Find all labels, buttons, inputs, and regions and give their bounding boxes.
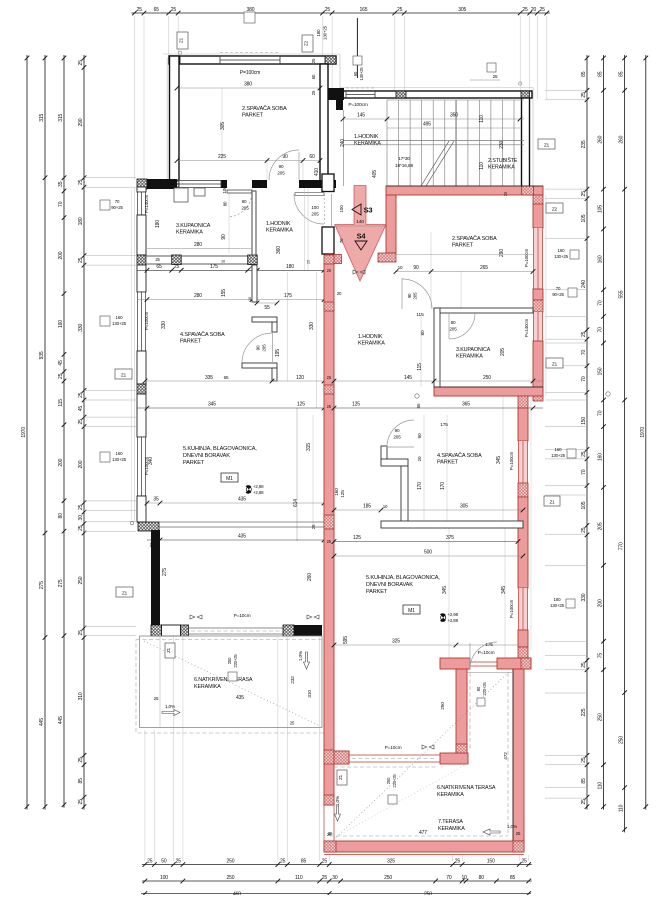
right dim col fine [581, 55, 589, 810]
svg-text:1.HODNIK: 1.HODNIK [354, 134, 379, 140]
right dim col coarse [619, 55, 627, 832]
svg-text:PARKET: PARKET [183, 460, 205, 466]
svg-text:Z1: Z1 [179, 37, 184, 43]
svg-text:220+25: 220+25 [482, 682, 487, 696]
svg-text:25: 25 [581, 331, 587, 337]
right apt kupaonica walls [434, 308, 543, 396]
left terrace outline [136, 636, 326, 733]
svg-text:70: 70 [581, 350, 587, 356]
svg-text:90+25: 90+25 [552, 292, 564, 297]
tag Z1 right of stair [538, 139, 555, 149]
svg-text:25: 25 [78, 504, 84, 510]
svg-text:70: 70 [598, 300, 604, 306]
svg-text:KERAMIKA: KERAMIKA [438, 826, 465, 832]
svg-text:290: 290 [78, 118, 84, 126]
svg-text:5.KUHINJA, BLAGOVAONICA,: 5.KUHINJA, BLAGOVAONICA, [366, 575, 440, 581]
svg-text:P=100cm: P=100cm [509, 599, 514, 618]
stair break diagonal [421, 141, 454, 186]
svg-text:80: 80 [58, 513, 64, 519]
bottom extension lines [145, 637, 529, 861]
svg-text:555: 555 [619, 290, 625, 298]
right terrace Z1 tag [337, 770, 347, 785]
svg-text:25: 25 [581, 662, 587, 668]
svg-text:160: 160 [116, 315, 124, 320]
svg-text:25: 25 [311, 90, 316, 95]
svg-text:65: 65 [156, 264, 162, 270]
room 5.KUHINJA label left apt [183, 446, 257, 466]
svg-text:25: 25 [280, 859, 286, 865]
svg-text:25: 25 [78, 419, 84, 425]
svg-text:85: 85 [78, 778, 84, 784]
svg-text:115: 115 [417, 363, 423, 371]
svg-text:275: 275 [58, 579, 64, 587]
svg-text:70: 70 [339, 238, 344, 243]
svg-text:310: 310 [307, 690, 313, 698]
right apt top wall red [386, 186, 543, 196]
svg-text:P=100cm: P=100cm [509, 451, 514, 470]
4.SPAVACA dims left apt [137, 321, 334, 411]
svg-text:25: 25 [311, 58, 316, 63]
svg-text:65: 65 [416, 403, 421, 408]
svg-text:1970: 1970 [640, 427, 646, 438]
svg-text:25: 25 [522, 7, 528, 13]
svg-text:235: 235 [581, 140, 587, 148]
svg-text:330: 330 [581, 593, 587, 601]
svg-text:250: 250 [424, 892, 432, 896]
svg-text:205: 205 [311, 212, 319, 217]
svg-text:205: 205 [277, 171, 285, 176]
svg-text:5.KUHINJA, BLAGOVAONICA,: 5.KUHINJA, BLAGOVAONICA, [183, 446, 257, 452]
svg-text:100: 100 [160, 875, 168, 881]
svg-text:472: 472 [503, 752, 509, 760]
svg-text:345: 345 [501, 586, 507, 594]
stair block top wall [336, 88, 532, 99]
fixtures kupaonica left apt [174, 188, 205, 202]
svg-text:25: 25 [137, 7, 143, 13]
svg-text:110: 110 [479, 162, 485, 170]
svg-text:405: 405 [372, 170, 378, 178]
tag 90/130+25 above stair [353, 56, 364, 81]
svg-text:195: 195 [275, 349, 281, 357]
bottom dim row1 [142, 859, 532, 867]
svg-text:150: 150 [581, 417, 587, 425]
svg-text:2.SPAVAČA SOBA: 2.SPAVAČA SOBA [242, 105, 287, 112]
svg-text:20: 20 [417, 456, 422, 461]
svg-text:DNEVNI BORAVAK: DNEVNI BORAVAK [183, 453, 230, 459]
svg-text:110: 110 [619, 804, 625, 812]
room 1.HODNIK (stair hall) label [354, 134, 381, 147]
svg-text:Z1: Z1 [549, 500, 555, 505]
svg-text:3.KUPAONICA: 3.KUPAONICA [176, 223, 211, 229]
svg-text:335: 335 [205, 375, 213, 381]
left apartment step-out wall [137, 179, 177, 189]
svg-text:25: 25 [78, 525, 84, 531]
right apt kitchen dims [332, 586, 518, 656]
tag 25 square above stair right [470, 63, 500, 80]
svg-text:KERAMIKA: KERAMIKA [456, 354, 483, 360]
tag 70/90+25 left margin [100, 199, 123, 210]
svg-text:10: 10 [461, 875, 467, 881]
tag 160/130+25 right margin 2 [551, 447, 576, 458]
kitchen parapet double line [159, 522, 324, 527]
svg-text:250: 250 [227, 657, 232, 664]
svg-text:25: 25 [325, 7, 331, 13]
svg-text:10: 10 [383, 504, 388, 509]
svg-text:435: 435 [238, 534, 246, 540]
svg-text:65: 65 [224, 375, 229, 380]
svg-text:55: 55 [264, 305, 270, 311]
svg-text:150: 150 [487, 859, 495, 865]
svg-text:614: 614 [293, 499, 299, 507]
svg-text:P=140cm: P=140cm [144, 194, 149, 213]
svg-text:1,0%: 1,0% [165, 704, 176, 710]
svg-text:90: 90 [407, 293, 412, 298]
svg-text:90: 90 [221, 234, 227, 240]
svg-text:M1: M1 [408, 608, 415, 614]
svg-text:1,0%: 1,0% [507, 824, 518, 830]
spine bottom gap and lines [324, 805, 334, 841]
right terrace 250/220+25 tag [386, 774, 397, 804]
corridor dims near arrow [334, 205, 391, 244]
svg-text:25: 25 [176, 859, 182, 865]
svg-text:140: 140 [356, 219, 364, 225]
S4 label and triangle [355, 232, 367, 251]
right apt terrace step wall vertical [334, 669, 468, 764]
svg-text:45: 45 [78, 406, 84, 412]
svg-text:35: 35 [153, 497, 159, 503]
svg-text:375: 375 [446, 535, 454, 541]
svg-text:160: 160 [558, 248, 566, 253]
svg-text:Z1: Z1 [121, 373, 127, 378]
svg-text:160: 160 [555, 447, 563, 452]
svg-text:2.STUBIŠTE: 2.STUBIŠTE [488, 157, 518, 164]
svg-text:25: 25 [493, 74, 498, 79]
svg-text:45: 45 [58, 360, 64, 366]
svg-text:125: 125 [353, 535, 361, 541]
door symbols hodnik right apt [353, 270, 365, 274]
svg-text:260: 260 [598, 135, 604, 143]
svg-text:25: 25 [581, 451, 587, 457]
svg-text:P=100cm: P=100cm [144, 311, 149, 330]
svg-text:Z2: Z2 [552, 207, 558, 212]
svg-text:80: 80 [223, 201, 228, 206]
svg-text:315: 315 [39, 113, 45, 121]
svg-text:P=10cm: P=10cm [234, 613, 251, 619]
svg-text:90: 90 [279, 164, 284, 169]
svg-text:250: 250 [384, 875, 392, 881]
svg-text:305: 305 [220, 122, 226, 130]
room 2.SPAVACA SOBA: bottom wall with door opening [169, 180, 336, 188]
svg-text:232: 232 [290, 676, 296, 684]
svg-text:S3: S3 [364, 206, 373, 215]
svg-text:1970: 1970 [21, 427, 27, 438]
svg-text:435: 435 [236, 695, 244, 701]
svg-text:90: 90 [417, 433, 423, 439]
right apt bedroom4 dims [332, 422, 526, 558]
svg-text:130+25: 130+25 [112, 457, 127, 462]
tag 180/130+25 top [244, 12, 328, 40]
red arrow S3 S4 [335, 186, 386, 282]
kitchen step block left [138, 522, 159, 531]
svg-text:KERAMIKA: KERAMIKA [488, 165, 515, 171]
svg-text:70: 70 [598, 410, 604, 416]
svg-text:110: 110 [598, 782, 604, 790]
partition 4.SPAVACA left apt L-shape [242, 265, 279, 381]
svg-text:70: 70 [58, 201, 64, 207]
svg-text:25: 25 [397, 7, 403, 13]
svg-text:155: 155 [221, 289, 227, 297]
right apt terrace door P=10cm [349, 745, 440, 762]
tag Z1 above top-left room [177, 32, 188, 49]
left dim col coarse [39, 55, 47, 810]
svg-text:595: 595 [343, 636, 349, 644]
svg-text:130+25: 130+25 [554, 254, 569, 259]
right apt hodnik label [358, 334, 385, 347]
svg-text:6.NATKRIVENA TERASA: 6.NATKRIVENA TERASA [437, 785, 496, 791]
svg-text:25: 25 [581, 757, 587, 763]
svg-text:25: 25 [78, 799, 84, 805]
right terrace slope arrow horizontal [483, 824, 518, 835]
svg-text:25: 25 [322, 859, 328, 865]
svg-text:205: 205 [449, 327, 457, 332]
right dim col mid [598, 55, 606, 810]
svg-text:250: 250 [598, 713, 604, 721]
svg-text:85: 85 [619, 71, 625, 77]
svg-text:85: 85 [581, 778, 587, 784]
right terrace slope arrow vertical [335, 795, 342, 821]
svg-text:105: 105 [598, 205, 604, 213]
svg-text:410: 410 [314, 168, 320, 176]
svg-text:250: 250 [226, 875, 234, 881]
svg-text:170: 170 [417, 482, 423, 490]
right apt bedroom4 label [437, 452, 482, 466]
svg-text:90: 90 [256, 345, 261, 350]
svg-text:20: 20 [337, 291, 342, 296]
svg-text:1.HODNIK: 1.HODNIK [266, 221, 291, 227]
room 2.SPAVACA SOBA label [242, 105, 287, 119]
svg-text:290: 290 [499, 249, 505, 257]
svg-text:KERAMIKA: KERAMIKA [358, 341, 385, 347]
svg-text:260: 260 [619, 135, 625, 143]
svg-text:180: 180 [78, 217, 84, 225]
kitchen left wall lower [151, 530, 160, 626]
svg-text:130+25: 130+25 [323, 25, 328, 40]
svg-text:200: 200 [58, 251, 64, 259]
spine wall black top [322, 174, 342, 264]
svg-text:345: 345 [496, 456, 502, 464]
svg-text:+2,88: +2,88 [448, 618, 459, 623]
svg-text:KERAMIKA: KERAMIKA [266, 228, 293, 234]
left dim col fine [78, 55, 86, 810]
svg-text:477: 477 [419, 830, 427, 836]
svg-text:160: 160 [334, 488, 340, 496]
svg-text:90: 90 [413, 265, 419, 271]
svg-text:30: 30 [332, 875, 338, 881]
left apartment left wall [137, 187, 149, 522]
svg-text:310: 310 [78, 692, 84, 700]
svg-text:70: 70 [446, 875, 452, 881]
room 1.HODNIK label left apt [266, 221, 293, 234]
svg-text:Z2: Z2 [304, 40, 309, 46]
stair block right wall [522, 98, 530, 187]
left terrace 250/220+25 tag [227, 654, 238, 681]
svg-text:125: 125 [352, 402, 360, 408]
svg-text:+2,98: +2,98 [448, 612, 459, 617]
stair treads [343, 100, 524, 186]
svg-text:25: 25 [581, 191, 587, 197]
svg-text:25: 25 [78, 630, 84, 636]
svg-text:6.NATKRIVENA TERASA: 6.NATKRIVENA TERASA [194, 677, 253, 683]
svg-text:50: 50 [161, 859, 167, 865]
tag Z1 left margin kitchen [116, 587, 133, 597]
left terrace Z1 tag [165, 643, 175, 658]
kitchen dims left apt [145, 322, 334, 581]
svg-text:345: 345 [208, 402, 216, 408]
svg-text:330: 330 [161, 321, 167, 329]
right terrace labels [419, 682, 509, 836]
svg-text:205: 205 [500, 348, 506, 356]
svg-text:185: 185 [363, 504, 371, 510]
right terrace inner outline [330, 672, 513, 841]
svg-text:P=100cm: P=100cm [240, 70, 260, 76]
svg-text:25: 25 [322, 875, 328, 881]
svg-text:110: 110 [295, 875, 303, 881]
svg-text:P=10cm: P=10cm [385, 745, 402, 751]
stair dims and labels [340, 102, 524, 178]
svg-text:205: 205 [598, 522, 604, 530]
svg-text:160: 160 [58, 320, 64, 328]
svg-text:PARKET: PARKET [437, 460, 459, 466]
svg-text:250: 250 [619, 736, 625, 744]
svg-text:70: 70 [598, 327, 604, 333]
svg-text:+2,88: +2,88 [253, 490, 264, 495]
svg-text:25: 25 [78, 60, 84, 66]
stair block left wall stub [328, 88, 344, 186]
right apt kitchen terrace door arc [470, 642, 497, 669]
bottom dim row2 [142, 875, 532, 883]
svg-text:315: 315 [58, 113, 64, 121]
svg-text:100: 100 [311, 205, 319, 210]
svg-text:3.KUPAONICA: 3.KUPAONICA [456, 347, 491, 353]
svg-text:220+25: 220+25 [392, 774, 397, 788]
svg-text:90+25: 90+25 [111, 205, 123, 210]
svg-text:25: 25 [78, 257, 84, 263]
svg-text:305: 305 [460, 504, 468, 510]
svg-text:150: 150 [598, 367, 604, 375]
svg-text:330: 330 [309, 322, 315, 330]
svg-text:495: 495 [423, 122, 431, 128]
svg-text:170: 170 [440, 482, 446, 490]
right apt kitchen south wall with door [440, 658, 531, 669]
svg-text:KERAMIKA: KERAMIKA [437, 792, 464, 798]
dim row left apt y299 [137, 289, 330, 302]
svg-text:20: 20 [531, 7, 537, 13]
svg-text:25: 25 [154, 696, 159, 701]
svg-text:25: 25 [581, 527, 587, 533]
tag Z1 right margin mid [546, 358, 563, 368]
svg-text:85: 85 [598, 71, 604, 77]
svg-text:175: 175 [284, 293, 292, 299]
svg-text:280: 280 [194, 293, 202, 299]
svg-text:305: 305 [458, 7, 466, 13]
svg-text:100: 100 [339, 205, 344, 213]
svg-text:325: 325 [392, 639, 400, 645]
svg-text:25: 25 [521, 859, 527, 865]
svg-text:160: 160 [598, 453, 604, 461]
svg-text:460: 460 [233, 892, 241, 896]
svg-text:85: 85 [510, 875, 516, 881]
room 4.SPAVACA SOBA label left apt [180, 331, 225, 345]
room 2.SPAVACA SOBA: left wall [170, 56, 180, 187]
svg-text:4.SPAVAČA SOBA: 4.SPAVAČA SOBA [180, 331, 225, 338]
kupaonica dims left apt [147, 186, 282, 254]
right apt bedroom2 label [452, 235, 497, 249]
interior construction lines [131, 88, 546, 658]
M1 tag right apt [403, 605, 420, 614]
left terrace slope arrow horizontal [162, 704, 180, 716]
svg-text:260: 260 [307, 573, 313, 581]
svg-text:P=100cm: P=100cm [524, 248, 529, 267]
svg-text:130+25: 130+25 [550, 603, 565, 608]
level marker left apt [246, 484, 264, 495]
svg-text:275: 275 [39, 581, 45, 589]
svg-text:25: 25 [58, 373, 64, 379]
svg-text:250: 250 [483, 375, 491, 381]
svg-text:90: 90 [282, 154, 288, 160]
tag 70/90+25 right margin [552, 286, 577, 297]
svg-text:205: 205 [393, 435, 401, 440]
left extension lines [84, 178, 136, 636]
svg-text:25: 25 [78, 392, 84, 398]
svg-text:25: 25 [539, 7, 545, 13]
tag 160/130+25 left margin upper [100, 315, 127, 326]
svg-text:115: 115 [58, 399, 64, 407]
svg-text:330: 330 [78, 323, 84, 331]
right apt bedroom4 door [387, 420, 414, 447]
right extension lines [545, 90, 587, 798]
right apt door arc bedroom2 [396, 255, 533, 309]
svg-text:165: 165 [360, 7, 368, 13]
svg-text:250: 250 [440, 702, 446, 710]
svg-text:85: 85 [301, 859, 307, 865]
svg-text:110: 110 [479, 115, 485, 123]
svg-text:35: 35 [58, 181, 64, 187]
svg-text:145: 145 [357, 113, 365, 119]
svg-text:Z1: Z1 [544, 143, 550, 148]
svg-text:345: 345 [442, 586, 448, 594]
svg-text:80: 80 [451, 320, 456, 325]
svg-text:265: 265 [480, 265, 488, 271]
svg-text:325: 325 [387, 859, 395, 865]
svg-text:200: 200 [58, 458, 64, 466]
svg-text:205: 205 [241, 206, 249, 211]
svg-text:445: 445 [39, 718, 45, 726]
svg-text:275: 275 [162, 568, 168, 576]
spine wall red [324, 255, 334, 805]
svg-text:75: 75 [598, 653, 604, 659]
right apt terrace right wall [513, 669, 524, 841]
svg-text:230: 230 [499, 140, 505, 148]
tag Z2 right margin [546, 203, 563, 213]
svg-text:280: 280 [194, 242, 202, 248]
left apartment interior band wall y255 [146, 255, 257, 265]
svg-text:PARKET: PARKET [366, 589, 388, 595]
left terrace labels [154, 676, 313, 701]
svg-text:250: 250 [226, 859, 234, 865]
right apt kitchen label [366, 575, 440, 595]
svg-text:30: 30 [78, 515, 84, 521]
section line top [356, 18, 358, 78]
